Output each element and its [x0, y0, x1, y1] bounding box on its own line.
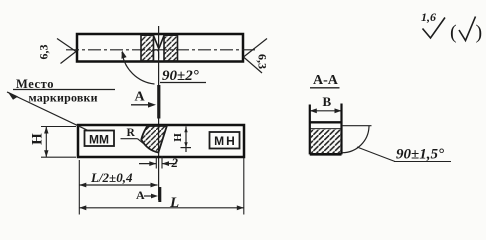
svg-text:1,6: 1,6 — [421, 10, 436, 24]
notch root arch — [153, 50, 158, 59]
roughness check mark — [423, 18, 446, 39]
svg-text:L/2±0,4: L/2±0,4 — [90, 170, 133, 185]
notch (hatched) — [141, 126, 167, 153]
right hatch block — [164, 35, 178, 61]
vertical centerline — [158, 26, 160, 200]
H dimension (left) — [30, 127, 77, 158]
svg-text:А-А: А-А — [313, 73, 339, 88]
angle arc 90±2 — [122, 52, 155, 84]
svg-text:маркировки: маркировки — [29, 91, 98, 105]
svg-text:В: В — [323, 94, 332, 109]
notch V right flank — [159, 36, 164, 49]
svg-text:90±2°: 90±2° — [162, 68, 199, 84]
svg-text:H: H — [30, 133, 46, 145]
left roughness mark 6.3 — [37, 39, 77, 64]
left hatch block — [141, 35, 154, 61]
svg-text:(: ( — [450, 22, 457, 44]
svg-text:L: L — [169, 195, 179, 211]
svg-text:A: A — [136, 188, 145, 202]
marking box MH — [210, 132, 240, 149]
thick section trace (top) — [157, 85, 160, 119]
thick section trace (bottom) — [158, 187, 161, 202]
horizontal centerline — [66, 49, 256, 51]
2 dimension under notch — [139, 155, 179, 170]
bar outline — [77, 34, 243, 62]
notch depth dim (right of notch) — [172, 127, 191, 153]
marking box MM — [85, 131, 115, 147]
svg-text:A: A — [135, 90, 146, 105]
L dimension — [79, 158, 244, 215]
svg-text:6,3: 6,3 — [256, 54, 270, 69]
svg-text:R: R — [127, 127, 136, 139]
svg-text:2: 2 — [171, 155, 179, 170]
svg-text:): ) — [476, 22, 483, 44]
svg-text:90±1,5°: 90±1,5° — [396, 147, 444, 163]
section square — [309, 105, 311, 155]
svg-text:H: H — [172, 133, 184, 142]
svg-text:МН: МН — [214, 134, 237, 148]
specimen outline — [78, 125, 244, 157]
right roughness mark 6.3 — [244, 39, 270, 74]
svg-text:6,3: 6,3 — [37, 45, 51, 60]
svg-text:ММ: ММ — [89, 133, 109, 147]
90±1.5 corner angle annotation — [342, 125, 372, 127]
notch V left flank — [154, 36, 159, 49]
L/2±0,4 dimension — [79, 160, 157, 215]
